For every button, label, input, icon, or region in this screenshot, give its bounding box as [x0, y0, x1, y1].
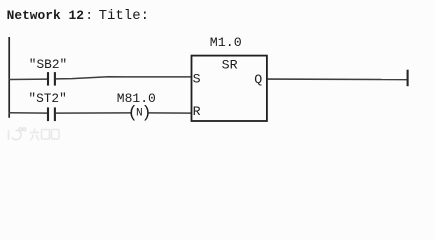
right terminal bar — [407, 70, 409, 87]
svg-text:M1.0: M1.0 — [210, 35, 242, 50]
wire from contact SB2 to box S input — [56, 77, 192, 79]
watermark characters — [30, 129, 59, 141]
contact ST2 left bar — [47, 107, 49, 121]
svg-text:): ) — [141, 104, 151, 123]
svg-text:"ST2": "ST2" — [28, 91, 66, 106]
svg-text::: : — [85, 8, 93, 23]
wire from contact ST2 to (N) element — [56, 112, 131, 114]
wire from (N) element to box R input — [148, 112, 191, 114]
SR flip-flop box U1 — [192, 56, 267, 121]
watermark logo mark — [9, 128, 26, 140]
svg-text:Network 12: Network 12 — [7, 8, 84, 23]
svg-text:S: S — [193, 72, 201, 87]
contact SB2 right bar — [54, 72, 56, 86]
svg-text:SR: SR — [222, 58, 238, 73]
contact SB2 left bar — [47, 72, 49, 86]
contact ST2 right bar — [54, 107, 56, 121]
svg-text:Title:: Title: — [99, 8, 149, 24]
svg-text:Q: Q — [254, 72, 262, 87]
left power rail — [8, 37, 10, 118]
wire from Q output to right terminal — [267, 78, 407, 81]
wire rung2 from rail to contact ST2 — [9, 112, 48, 114]
wire rung1 from rail to contact SB2 — [9, 78, 48, 80]
svg-text:"SB2": "SB2" — [29, 57, 67, 72]
svg-text:R: R — [193, 104, 201, 119]
